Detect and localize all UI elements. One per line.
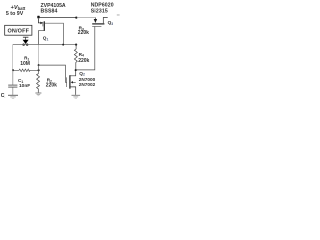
capacitor C1 (10nF) (8, 85, 17, 95)
svg-text:220k: 220k (78, 58, 89, 64)
label ZVP4105A / BSS84 (Q1 types) (41, 3, 66, 15)
label C1 10nF (18, 78, 30, 89)
transistor Q2 (N-MOSFET 2N7000) (67, 71, 76, 95)
wire junction column segment (38, 65, 40, 74)
node Q2 gate tap junction dot (38, 64, 40, 66)
node +Vbatt terminal dot (37, 16, 39, 19)
label R1 10M (20, 56, 30, 68)
transistor Q3 (power P-MOSFET) (92, 18, 108, 27)
node R1 right junction dot (38, 69, 40, 71)
wire Q1 gate lead to R3/R4 node (45, 23, 64, 44)
wire left column down to C1 (faint) (12, 45, 14, 70)
switch S1 pushbutton symbol (23, 37, 29, 45)
wire left column to C1 top (12, 70, 14, 85)
wire top supply rail (terminal to R3 top node) (38, 17, 76, 19)
svg-text:Q2: Q2 (79, 71, 85, 77)
svg-text:Si2315: Si2315 (91, 8, 108, 14)
wire Q2 gate wire (39, 65, 67, 82)
svg-text:C1: C1 (18, 78, 23, 84)
wire Q1 drain lead down (38, 31, 44, 45)
resistor R1 (horizontal 10M) (13, 69, 38, 72)
svg-text:220k: 220k (46, 83, 57, 89)
svg-text:Q3: Q3 (108, 20, 114, 26)
wire Q1 drain column (faint) crossing rail (37, 44, 39, 65)
svg-text:2N7002: 2N7002 (79, 82, 96, 87)
label Q2 2N7000 2N7002 (79, 71, 96, 87)
label R4 220k (78, 52, 89, 64)
wire middle horizontal rail (S1 row) (13, 44, 77, 46)
svg-text:C.: C. (1, 93, 6, 99)
node R3 top junction dot (75, 16, 77, 18)
label R3 220k (78, 26, 89, 37)
node R1 left junction dot (12, 69, 14, 71)
ground (under R2) (35, 93, 41, 96)
switch S1 ON/OFF label box (5, 25, 32, 35)
node Q2 drain / R4 bottom / Q3 gate junction dot (75, 69, 77, 71)
label NDP6020 / Si2315 (Q3 types) (91, 3, 114, 15)
wire Q3 gate wire (77, 27, 95, 70)
ground (under Q2) (72, 95, 81, 98)
label +Vbatt (6, 5, 26, 17)
svg-text:220k: 220k (78, 30, 89, 36)
node R4 top / rail junction dot (75, 44, 77, 46)
svg-text:5 to 9V: 5 to 9V (6, 11, 24, 17)
resistor R2 (vertical 220k) (37, 74, 40, 93)
resistor R4 (vertical 220k) (74, 45, 77, 70)
svg-text:ON/OFF: ON/OFF (7, 29, 29, 35)
svg-text:BSS84: BSS84 (41, 9, 58, 15)
wire gray rail segment to Q3 source (77, 17, 95, 19)
label fragment top right (117, 14, 120, 16)
svg-text:10M: 10M (20, 61, 30, 67)
svg-text:R4: R4 (79, 52, 84, 58)
ground (under C1) (8, 95, 18, 98)
label R2 220k (46, 78, 57, 89)
svg-text:Q1: Q1 (43, 36, 49, 42)
svg-text:10nF: 10nF (19, 83, 30, 89)
transistor Q1 (small P-MOSFET) (38, 19, 44, 31)
node Q1 gate / rail junction dot (62, 44, 64, 46)
